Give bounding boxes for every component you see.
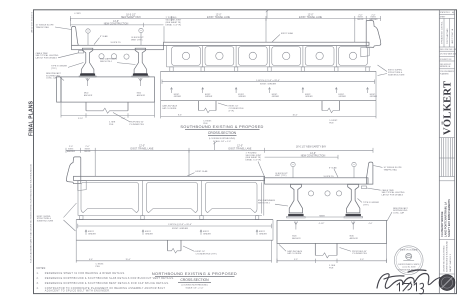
pelican emblem — [403, 253, 414, 260]
svg-text:8'-6": 8'-6" — [178, 115, 182, 117]
svg-text:15'-6": 15'-6" — [125, 259, 130, 261]
cable tray symbol — [362, 186, 367, 189]
svg-text:EXIST. SLAB: EXIST. SLAB — [281, 32, 293, 35]
volkert logo block — [439, 60, 454, 62]
conduit circles under deck — [308, 191, 313, 196]
exist pile with break — [167, 240, 169, 251]
svg-text:DETAIL 'C' (TYP.): DETAIL 'C' (TYP.) — [246, 159, 262, 162]
title block strip — [439, 10, 457, 294]
girder G4 — [347, 184, 360, 213]
bottom flange line — [167, 66, 372, 68]
svg-text:5'-10": 5'-10" — [78, 118, 83, 120]
svg-text:L CSWY: L CSWY — [74, 13, 82, 15]
existing box girder cells — [172, 47, 368, 66]
svg-text:SHLDR.: SHLDR. — [357, 19, 364, 21]
svg-text:RISER: RISER — [319, 215, 325, 217]
svg-text:S:\2018\CAUSEWAY\SAFETY BAY\CR: S:\2018\CAUSEWAY\SAFETY BAY\CROSS SECTIO… — [30, 163, 33, 263]
diaphragm under left deck end — [78, 181, 86, 191]
title block outer strip — [438, 10, 440, 294]
svg-text:8" SLAB: 8" SLAB — [329, 166, 337, 169]
svg-text:EXIST. GIRDER: EXIST. GIRDER — [172, 228, 188, 230]
svg-text:SUBSTRUCTURE: SUBSTRUCTURE — [388, 74, 405, 76]
svg-text:NEW CONSTRUCTION: NEW CONSTRUCTION — [104, 23, 129, 25]
svg-text:NORTHBOUND EXISTING & PROPOSED: NORTHBOUND EXISTING & PROPOSED — [152, 271, 237, 276]
svg-text:1.: 1. — [37, 272, 39, 275]
bearing stubs — [80, 216, 259, 220]
svg-text:License No. 30333: License No. 30333 — [402, 267, 415, 269]
signature scribble — [377, 270, 440, 288]
girder G2 — [134, 48, 147, 73]
svg-text:ADJACENT TO SPLICE BOLT WITH E: ADJACENT TO SPLICE BOLT WITH ENGINEER. — [45, 290, 110, 293]
svg-text:GIRDER: GIRDER — [88, 234, 96, 236]
svg-text:SAFETY BAY IMPROVEMENTS: SAFETY BAY IMPROVEMENTS — [447, 199, 451, 237]
existing barrier left — [66, 157, 80, 184]
svg-text:EXIST. TRAVEL LANE: EXIST. TRAVEL LANE — [229, 148, 252, 151]
svg-text:CAUSEWAY BRIDGE: CAUSEWAY BRIDGE — [440, 211, 444, 237]
dark corporate seal — [439, 275, 455, 291]
svg-text:2/13/2018 10:41:32 AM: 2/13/2018 10:41:32 AM — [30, 12, 33, 33]
svg-text:3 SPCS @ 8'-8" = 26'-0": 3 SPCS @ 8'-8" = 26'-0" — [168, 224, 192, 226]
svg-text:VOLKERT, INC.: VOLKERT, INC. — [440, 59, 453, 61]
svg-text:CHRISTOPHER E. WHITE: CHRISTOPHER E. WHITE — [398, 264, 420, 266]
svg-text:SLOPE 2%: SLOPE 2% — [111, 42, 121, 44]
svg-text:EXIST. SLAB: EXIST. SLAB — [196, 170, 208, 173]
svg-text:GIRDER: GIRDER — [259, 234, 267, 236]
bearing pads — [288, 214, 303, 217]
dim line under new cap — [277, 260, 387, 262]
svg-text:SEE NOTE 4: SEE NOTE 4 — [258, 203, 271, 205]
svg-text:CONC. CAP: CONC. CAP — [46, 77, 58, 80]
svg-text:VÖLKERT: VÖLKERT — [441, 81, 454, 135]
bottom flange line — [78, 215, 262, 217]
dim line under new cap — [61, 115, 155, 117]
svg-text:3809 MOSS ST.: 3809 MOSS ST. — [440, 64, 452, 66]
svg-text:PILE: PILE — [329, 268, 334, 270]
inner dim line 5 spcs — [162, 81, 375, 83]
svg-text:REFERENCE NORTHBOUND & SOUTHBO: REFERENCE NORTHBOUND & SOUTHBOUND BENT D… — [45, 282, 170, 285]
lane extension lines — [265, 18, 267, 42]
cable tray symbol — [79, 50, 84, 53]
svg-text:VENT (TYP.): VENT (TYP.) — [275, 175, 287, 177]
svg-text:GIRDER: GIRDER — [339, 96, 347, 98]
svg-text:GIRDER: GIRDER — [272, 96, 280, 98]
svg-text:SAFETY BAY NO. 2: SAFETY BAY NO. 2 — [449, 253, 452, 272]
new precast cap block — [57, 77, 61, 102]
svg-text:CYLINDER PILE (TYP.): CYLINDER PILE (TYP.) — [196, 253, 217, 255]
svg-text:EXIST. GIRDER: EXIST. GIRDER — [260, 84, 276, 86]
svg-text:4.: 4. — [37, 287, 39, 290]
new precast cap block — [277, 220, 387, 243]
svg-text:TRAFFIC RAIL: TRAFFIC RAIL — [384, 168, 398, 171]
svg-text:TRAFFIC RAIL: TRAFFIC RAIL — [36, 26, 50, 29]
proposed pile under new cap — [314, 243, 316, 255]
svg-text:STATE OF LOUISIANA: STATE OF LOUISIANA — [400, 248, 418, 251]
svg-text:SHLDR.: SHLDR. — [84, 151, 91, 153]
buckout vent circles — [86, 29, 90, 33]
svg-text:VENT (TYP.): VENT (TYP.) — [131, 39, 143, 41]
svg-text:SUBSTRUCTURE: SUBSTRUCTURE — [37, 221, 54, 223]
svg-text:CAP CLOSURE: CAP CLOSURE — [162, 107, 177, 110]
svg-text:PILE: PILE — [329, 123, 334, 125]
svg-text:NOTES:: NOTES: — [37, 267, 47, 270]
dimension line row 2 new construction — [70, 24, 163, 26]
cap edge drop lines — [276, 243, 278, 262]
proposed pile under new cap — [85, 102, 87, 111]
svg-text:FINAL PLANS: FINAL PLANS — [29, 100, 35, 136]
svg-text:3.: 3. — [37, 282, 39, 285]
svg-text:LAYOUT FOR DETAILS: LAYOUT FOR DETAILS — [36, 57, 58, 60]
lane extension lines — [188, 150, 190, 176]
centerline bent tick — [266, 10, 268, 19]
svg-text:PILE: PILE — [96, 266, 101, 268]
joint lines between cells — [203, 46, 337, 67]
svg-text:6'-6": 6'-6" — [89, 259, 93, 261]
svg-text:CAP CLOSURE: CAP CLOSURE — [287, 252, 302, 255]
svg-text:12'-0": 12'-0" — [237, 145, 243, 147]
exist girder labels with arrows — [85, 230, 258, 235]
svg-text:SHEET: SHEET — [440, 17, 445, 19]
notes / titles / seal — [37, 246, 441, 294]
date scribble — [397, 282, 424, 294]
bearing pads — [80, 74, 95, 76]
new deck slab — [72, 45, 164, 49]
svg-text:CROSS SECTION EXISTING: CROSS SECTION EXISTING — [443, 245, 445, 272]
svg-text:REFERENCE SHEET 31 FOR BEARING: REFERENCE SHEET 31 FOR BEARING & RISER D… — [45, 272, 126, 275]
existing cap band — [76, 219, 273, 221]
exist pile 2 with break — [321, 101, 323, 111]
svg-text:12'-0": 12'-0" — [139, 145, 145, 147]
new deck slab right — [265, 178, 368, 184]
svg-text:4'-1/2": 4'-1/2" — [319, 223, 325, 225]
approval grid — [439, 157, 454, 159]
svg-text:5 SPCS @ 5'-8" = 28'-4": 5 SPCS @ 5'-8" = 28'-4" — [256, 80, 280, 82]
svg-text:8" SLAB: 8" SLAB — [100, 35, 108, 38]
svg-text:GIRDER: GIRDER — [145, 234, 153, 236]
svg-text:GIRDER: GIRDER — [305, 96, 313, 98]
svg-text:ANCHOR: ANCHOR — [350, 237, 359, 240]
traffic rail barrier right — [367, 162, 373, 184]
svg-text:EXIST. TRAVEL LANE: EXIST. TRAVEL LANE — [131, 148, 154, 151]
svg-text:ANCHOR: ANCHOR — [292, 237, 301, 240]
svg-text:(LOOKING NORTHBOUND): (LOOKING NORTHBOUND) — [181, 285, 208, 287]
svg-text:NEW CONSTRUCTION: NEW CONSTRUCTION — [301, 156, 326, 158]
dimension line row 1 — [66, 149, 373, 151]
svg-text:GIRDER: GIRDER — [174, 96, 182, 98]
revision table top — [439, 14, 454, 16]
svg-text:(TYP.): (TYP.) — [363, 204, 369, 206]
joint lines between cells — [142, 181, 144, 216]
left margin vertical texts — [29, 12, 35, 263]
svg-text:SOUTHBOUND EXISTING & PROPOSED: SOUTHBOUND EXISTING & PROPOSED — [180, 124, 263, 129]
svg-text:9'-0": 9'-0" — [360, 259, 364, 261]
conduit circles under deck — [99, 54, 104, 59]
svg-text:LAYOUT FOR DETAILS: LAYOUT FOR DETAILS — [382, 194, 404, 197]
svg-text:NEW SAFETY BAY: NEW SAFETY BAY — [121, 16, 141, 19]
svg-text:(TYP.): (TYP.) — [229, 110, 235, 112]
svg-text:9'-9": 9'-9" — [294, 259, 298, 261]
mud anchor marks — [87, 78, 89, 86]
existing box girder cells — [81, 183, 257, 213]
svg-text:CIVIL ENGINEERS: CIVIL ENGINEERS — [440, 71, 454, 73]
svg-text:PONTCHARTRAIN: PONTCHARTRAIN — [446, 28, 449, 44]
existing deck slab — [164, 42, 370, 45]
bottom dim line exist — [160, 101, 162, 119]
svg-text:SEE NOTE 4: SEE NOTE 4 — [100, 61, 113, 63]
svg-text:SLOPE 2%: SLOPE 2% — [324, 176, 334, 178]
svg-text:NORTHBOUND & SOUTHBOUND: NORTHBOUND & SOUTHBOUND — [447, 240, 449, 272]
mud anchor marks — [295, 222, 297, 230]
svg-text:BARRIER: BARRIER — [67, 150, 76, 153]
buckout vent circles — [291, 162, 295, 166]
svg-text:LAKE PONTCHARTRAIN, LA: LAKE PONTCHARTRAIN, LA — [444, 202, 448, 237]
existing cap band — [161, 70, 376, 72]
riser dim — [306, 216, 343, 218]
svg-text:2.: 2. — [37, 277, 39, 280]
svg-text:PILE: PILE — [109, 124, 114, 126]
svg-text:SCALE: 1/4" = 1'-0": SCALE: 1/4" = 1'-0" — [185, 286, 203, 289]
inner dim line 3 spcs — [78, 225, 272, 227]
svg-text:LAKE P. CSWY LA: LAKE P. CSWY LA — [451, 28, 454, 44]
dimension line row 1 — [70, 17, 380, 19]
svg-text:DETAIL 'C' (TYP.): DETAIL 'C' (TYP.) — [166, 23, 182, 26]
existing barrier right — [366, 21, 381, 48]
diaphragm under right deck end — [361, 48, 369, 57]
svg-text:EXIST. TRAVEL LANE: EXIST. TRAVEL LANE — [299, 16, 322, 19]
svg-text:CROSS-SECTION: CROSS-SECTION — [208, 131, 237, 135]
svg-text:REFERENCE NORTHBOUND & SOUTHBO: REFERENCE NORTHBOUND & SOUTHBOUND SLAB D… — [45, 277, 175, 280]
svg-text:CROSS-SECTION: CROSS-SECTION — [180, 278, 209, 282]
exist pile 1 with break — [198, 101, 200, 111]
svg-text:EXIST. TRAVEL LANE: EXIST. TRAVEL LANE — [207, 16, 230, 19]
svg-text:DES. CEW CHK. JDM: DES. CEW CHK. JDM — [440, 49, 457, 51]
bearing stubs — [170, 67, 369, 71]
bottom dim line exist — [75, 240, 77, 262]
svg-text:4'-6": 4'-6" — [369, 223, 373, 225]
cap edge drop lines — [60, 102, 62, 117]
girder G1 — [81, 48, 94, 73]
svg-text:DR. RDW DATE 2018: DR. RDW DATE 2018 — [440, 53, 457, 56]
svg-text:(LOOKING NORTHBOUND): (LOOKING NORTHBOUND) — [209, 138, 236, 140]
girder G3 — [289, 184, 302, 213]
svg-text:CONC. CAP: CONC. CAP — [393, 212, 405, 215]
svg-text:(TYP.): (TYP.) — [51, 68, 57, 70]
svg-text:CYLINDER PILE: CYLINDER PILE — [129, 124, 145, 126]
cell void circles — [182, 52, 356, 59]
svg-text:GIRDER: GIRDER — [370, 96, 378, 98]
svg-text:GIRDER: GIRDER — [205, 96, 213, 98]
top drawing: SOUTHBOUND cross-section — [36, 10, 406, 143]
engineer seal — [394, 246, 423, 275]
centerline bent tick — [214, 142, 216, 151]
traffic rail barrier left — [72, 26, 79, 45]
svg-text:SPREADSHEET CONTROL: SPREADSHEET CONTROL — [441, 21, 444, 44]
exist girder labels with arrows — [171, 88, 173, 93]
svg-text:ANCHOR: ANCHOR — [137, 94, 146, 97]
bottom drawing: NORTHBOUND cross-section — [37, 142, 409, 270]
svg-text:18'-0 1/2" NEW SAFETY BAY: 18'-0 1/2" NEW SAFETY BAY — [296, 145, 327, 148]
svg-text:GIRDER: GIRDER — [238, 96, 246, 98]
svg-text:ANCHOR: ANCHOR — [84, 94, 93, 97]
existing deck slab — [74, 176, 265, 180]
svg-text:GIRDER: GIRDER — [203, 234, 211, 236]
svg-text:16'-6": 16'-6" — [292, 115, 297, 117]
svg-text:CYLINDER PILE: CYLINDER PILE — [352, 253, 368, 255]
